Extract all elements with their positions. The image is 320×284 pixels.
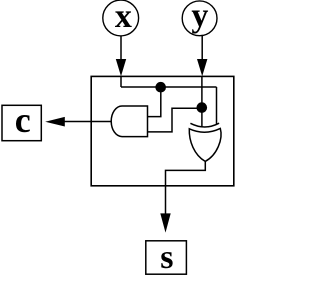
junction dot on x bus <box>155 82 166 93</box>
junction dot on y wire <box>197 102 208 113</box>
arrowhead into c <box>45 117 65 127</box>
wire x continuation inside box <box>120 76 122 87</box>
AND gate (faces left) <box>111 106 147 137</box>
input terminal y (circle) <box>182 0 217 36</box>
wire main horizontal x bus <box>121 86 217 88</box>
enclosing box (half adder) <box>91 76 234 185</box>
wire from x to box <box>120 36 122 62</box>
XOR gate (faces down) : input arc 1 <box>190 123 219 127</box>
svg-text:y: y <box>191 0 208 35</box>
wire from y to box <box>201 35 203 62</box>
arrowhead into box from y <box>197 59 207 76</box>
svg-text:c: c <box>15 100 31 140</box>
wire from dot to AND input 1 <box>148 87 161 117</box>
output box s <box>146 241 187 274</box>
wire y vertical inside box <box>201 76 203 126</box>
arrowhead into s <box>160 213 170 232</box>
svg-text:x: x <box>115 0 132 35</box>
wire x branch down to XOR <box>216 87 218 124</box>
output box c <box>2 105 41 140</box>
input terminal x (circle) <box>103 0 139 36</box>
wire from y dot to AND input 2 <box>148 108 202 132</box>
arrowhead into box from x <box>116 59 126 76</box>
wire XOR output <box>166 161 206 215</box>
wire AND output to c <box>63 121 111 123</box>
XOR gate input arc 2 and body <box>189 128 221 161</box>
svg-text:s: s <box>160 239 173 276</box>
